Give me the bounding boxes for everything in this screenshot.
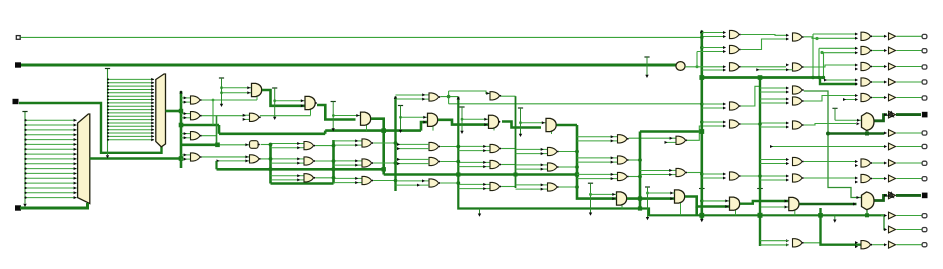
wire V395 to E2 b xyxy=(396,162,430,165)
OR gate M3 xyxy=(861,62,872,70)
input pin P1 xyxy=(16,36,20,40)
output pin y50.7 xyxy=(922,49,927,53)
XOR gate A1 xyxy=(184,96,202,104)
wire splitter S1 leg 7 xyxy=(24,153,76,156)
wire buffer out y97.5 xyxy=(897,97,922,99)
wire M4 input stub a xyxy=(824,79,857,82)
wire bus out y195 xyxy=(896,194,921,197)
wire T5 to F0 input a xyxy=(462,118,489,121)
input pin P2 (bus) xyxy=(15,62,21,67)
wire splitter S2 leg 4 xyxy=(107,91,154,94)
wire M out y163 xyxy=(872,162,886,164)
wire bus segment y125 xyxy=(181,124,219,127)
tap/wire MUX1 input a xyxy=(832,108,861,122)
XOR gate H2 xyxy=(611,156,629,164)
wire V577 to H1 b xyxy=(577,140,611,142)
wire I0 bottom pin xyxy=(680,202,682,216)
wire to J2 input xyxy=(697,51,723,53)
junction E4 branch xyxy=(447,95,451,99)
gate M6 arrows xyxy=(855,160,858,163)
wire splitter S1 leg 8 xyxy=(24,157,76,160)
wire F2 out xyxy=(501,164,515,166)
wire H0 out to I0 xyxy=(627,197,675,200)
junction V333/y169 xyxy=(331,167,335,171)
node S2 feed top cap xyxy=(105,68,110,70)
junction A1out xyxy=(212,99,215,102)
wire MUX1 out xyxy=(875,115,888,121)
wire vertical V820 to M8 xyxy=(821,208,862,245)
wire C1 out xyxy=(315,145,333,147)
arrow into B2 xyxy=(245,143,248,146)
wire V459 to F1 b xyxy=(458,150,483,152)
arrow E0out into F0 xyxy=(484,123,487,126)
output pin y36.5 xyxy=(922,34,927,38)
wire K0 out to MUX2 xyxy=(799,203,856,206)
wire bus y77 down to M4 xyxy=(820,78,857,85)
input pin P3 (bus) xyxy=(13,99,19,104)
wire D3 out xyxy=(373,180,395,182)
wire main vertical V3 xyxy=(700,31,703,220)
XOR gate B3 xyxy=(250,155,261,163)
XOR gate G3 xyxy=(541,183,559,191)
wire M5 input b stub xyxy=(843,98,857,101)
wire K3 out via V828 to MUX2 xyxy=(804,91,861,198)
junction x823/bus77 xyxy=(822,76,825,79)
wire V3 to J5 a xyxy=(702,121,723,123)
wire E3 out xyxy=(440,182,458,184)
wire vertical V333 xyxy=(332,140,335,184)
wire K0 bottom pin xyxy=(794,209,796,215)
XOR gate E4 xyxy=(422,93,440,101)
junction V383/y169 xyxy=(382,167,386,171)
junction V577/G3 xyxy=(575,185,579,189)
wire C0 out to D0 xyxy=(317,105,356,120)
wire J1 out to K1 xyxy=(741,34,786,37)
XOR gate J5 xyxy=(730,120,741,128)
AND gate J2 xyxy=(730,45,741,53)
wire V577 to H2 a xyxy=(577,157,611,159)
wire V270 to C3 a xyxy=(271,175,298,177)
wire V4 to K7 a xyxy=(760,175,786,177)
wire V514 to G3 a xyxy=(516,184,542,186)
junction V395/D2 xyxy=(394,161,398,165)
tick on V3 xyxy=(699,188,705,190)
buffer y66.5 xyxy=(884,63,896,70)
wire A3 out xyxy=(202,136,217,145)
tap T5 xyxy=(459,107,464,134)
wire V459 to F3 a xyxy=(458,183,483,185)
wire J3 out to K2 xyxy=(741,66,786,68)
wire B2 out xyxy=(261,144,271,146)
arrow V3 into J0 xyxy=(725,199,728,202)
gate J1 arrows xyxy=(723,31,726,34)
wire V1 to A1 input b xyxy=(181,101,184,103)
wire F0 bottom pin xyxy=(493,127,495,131)
wire V3 to J4 a xyxy=(702,103,723,105)
wire I1 out to J5 xyxy=(687,126,723,140)
wire K7 out to M7 xyxy=(804,177,857,179)
gate K2 arrows xyxy=(786,63,789,66)
wire A2 out to B1 xyxy=(202,115,246,117)
wire V640 to I2 a xyxy=(640,170,670,172)
wire splitter S1 leg 12 xyxy=(24,177,76,180)
node S1 feed bottom arrow xyxy=(23,204,26,207)
AND gate I0 xyxy=(675,190,687,203)
wire buffer out y178.5 xyxy=(897,178,922,180)
junction V270/B2 xyxy=(269,143,273,147)
XOR gate F1 xyxy=(483,144,501,152)
wire J6 out xyxy=(741,175,760,177)
wire V514 to G3 b xyxy=(516,188,542,190)
wire I0 input a xyxy=(648,192,675,195)
junction V2/y144 xyxy=(215,143,220,148)
junction V3/netA xyxy=(700,36,704,40)
gate M7 arrows xyxy=(855,177,858,180)
XOR gate E3 xyxy=(429,179,440,187)
tap T3 xyxy=(331,102,336,132)
wire D2 out xyxy=(373,162,395,164)
wire V4 to K4 b xyxy=(760,102,786,104)
wire M out y82 xyxy=(872,81,886,83)
AND gate B0 xyxy=(252,83,264,96)
junction V3/y131 xyxy=(699,129,704,134)
wire V577 to H1 a xyxy=(577,136,611,138)
junction V3/J6a xyxy=(700,172,704,176)
junction V3/J4a xyxy=(700,102,704,106)
junction y133/select xyxy=(865,132,869,136)
junction V333/C1 xyxy=(332,144,336,148)
wire H3 out xyxy=(629,176,640,178)
buffer (bus) y114 xyxy=(884,111,896,118)
buffer gate F4 xyxy=(490,92,501,100)
wire G2 out xyxy=(559,166,577,168)
XOR gate G1 xyxy=(541,147,559,155)
wire splitter S1 leg 11 xyxy=(24,172,76,175)
buffer y146.5 xyxy=(884,143,896,150)
junction V395/D1 xyxy=(394,141,398,145)
junction V333/C3 xyxy=(332,176,336,180)
wire buffer out y146.5 xyxy=(897,146,922,148)
wire vertical x813 xyxy=(812,34,814,78)
XOR gate I1 xyxy=(676,136,687,144)
wire bus from P3 to S2 xyxy=(19,103,162,153)
junction V3/y77 xyxy=(699,75,704,80)
buffer y229.5 xyxy=(884,226,896,233)
junction V4/J6 xyxy=(758,174,762,178)
wire K2 input b xyxy=(756,68,792,71)
wire bus segment y183 xyxy=(271,182,334,185)
wire bus to N13 xyxy=(884,215,886,229)
gate K1 arrows xyxy=(786,34,789,37)
output pin y229.6 xyxy=(922,228,927,232)
gate M4 arrows xyxy=(855,79,858,82)
output pin y146.5 xyxy=(922,144,927,148)
wire V4 to K0 input b xyxy=(760,206,789,208)
wire branch to J2 xyxy=(696,52,698,67)
junction V577/G2 xyxy=(575,165,579,169)
XOR gate D1 xyxy=(355,139,373,147)
wire H1 out to I1 xyxy=(629,137,676,139)
gate J6 arrows xyxy=(723,173,726,176)
wire splitter S2 leg 8 xyxy=(107,105,154,108)
buffer y97.5 xyxy=(884,94,896,101)
wire M out y36.3 xyxy=(872,35,886,37)
wire bus segment y133 xyxy=(219,133,325,136)
wire splitter S2 leg 9 xyxy=(107,108,154,111)
junction V459/E1 xyxy=(456,145,460,149)
wire V333 to D1 b xyxy=(334,144,356,146)
wire splitter S1 output bus xyxy=(90,157,181,160)
wire E0 out to F0 xyxy=(438,120,489,125)
wire V3 to J6 b xyxy=(702,177,723,179)
wire bus out y114 xyxy=(896,113,921,116)
wire vertical bus V1 xyxy=(180,91,183,168)
wire V3 to J1 b xyxy=(702,36,723,38)
wire K5 out to MUX1 xyxy=(804,124,856,126)
junction V1/y158 xyxy=(179,156,184,161)
junction T5/F0a xyxy=(461,118,464,121)
wire M out y244.7 xyxy=(872,244,886,246)
wire vertical V395 xyxy=(394,97,396,192)
XOR gate K3 xyxy=(793,86,804,94)
junction T4/E0a xyxy=(399,116,402,119)
tap T9 xyxy=(478,209,481,217)
arrow J0out into K0 xyxy=(785,200,788,203)
wire bus segment y130 xyxy=(325,129,421,132)
node V3 bottom arrow xyxy=(700,219,703,222)
wire x819 to M2 a xyxy=(819,47,857,49)
wire B0 out to C0 xyxy=(262,90,305,106)
wire vertical V4 xyxy=(759,78,761,247)
wire V1 to A4 input a xyxy=(181,154,184,156)
node V459 top arrow xyxy=(457,96,460,99)
wire T1 to B0 input b xyxy=(222,91,252,94)
wire V395 to E1 b xyxy=(396,147,430,150)
wire V270 to C1 b xyxy=(271,147,298,149)
wire buffer out y36.3 xyxy=(897,35,922,37)
arrow D0out into E0 xyxy=(423,121,426,124)
junction V577/G1 xyxy=(575,150,579,154)
wire vertical V270 xyxy=(269,144,272,184)
junction V383/D0out xyxy=(381,128,386,133)
XOR gate K6 xyxy=(793,157,804,165)
junction V3/J2b xyxy=(700,46,704,50)
wire K8 out to V820 xyxy=(804,242,821,244)
gate M5 arrows xyxy=(855,94,858,97)
arrow V577 into H0 xyxy=(612,197,615,200)
wire V4 to K3 b xyxy=(760,91,786,93)
gate I1 input arrow xyxy=(670,137,673,140)
junction V4/bus xyxy=(758,213,763,218)
XOR gate D2 xyxy=(355,159,373,167)
junction T6/G0a xyxy=(519,121,522,124)
AND gate G0 xyxy=(546,118,558,131)
arrow H0out into I0 xyxy=(670,197,673,200)
gate K6 arrows xyxy=(786,158,789,161)
buffer (bus) y195 xyxy=(884,191,896,198)
wire splitter S1 leg 16 xyxy=(24,196,76,199)
splitter S1 body xyxy=(78,114,90,204)
wire x823 to M2 b xyxy=(824,52,858,54)
wire vertical V219 xyxy=(218,125,221,134)
output pin y215.7 xyxy=(922,214,927,218)
wire vertical x823 xyxy=(823,53,825,78)
wire D0 out xyxy=(371,119,384,131)
XOR gate B1 xyxy=(243,113,261,121)
output pin y163.3 xyxy=(922,161,927,165)
AND gate F0 xyxy=(489,115,501,128)
wire H0 input b xyxy=(591,193,617,196)
wire splitter S2 leg 0 xyxy=(107,78,154,81)
junction x819/bus77 xyxy=(817,76,820,79)
gate K5 arrows xyxy=(786,122,789,125)
wire V3 to J2 b xyxy=(702,47,723,49)
wire V459 to F3 b xyxy=(458,188,483,190)
junction V4/J5 xyxy=(758,122,762,126)
box gate B2 xyxy=(250,141,260,149)
wire V4 to K8 b xyxy=(760,244,788,246)
wire to F4 input xyxy=(449,91,490,93)
wire V577 to H3 b xyxy=(577,178,611,180)
wire buffer out y163 xyxy=(897,162,922,164)
junction V820/bus xyxy=(818,213,823,218)
OR gate M5 xyxy=(861,93,872,101)
wire V3 to J6 a xyxy=(702,173,723,175)
gate M8 arrows xyxy=(855,241,858,244)
MUX1 input arrows xyxy=(857,122,860,125)
AND gate E0 xyxy=(428,113,440,126)
wire M out y66.5 xyxy=(872,66,886,68)
gate I1 input stub b xyxy=(665,141,677,144)
gate M3 arrows xyxy=(855,64,858,67)
wire V4 to K7 b xyxy=(760,179,786,181)
OR gate M8 xyxy=(861,241,872,249)
XOR gate K5 xyxy=(793,121,804,129)
wire splitter S2 leg 5 xyxy=(107,95,154,98)
wire V459 to F2 b xyxy=(458,166,483,168)
wire E0 bottom pin xyxy=(432,125,434,131)
output pin y98 xyxy=(922,96,927,100)
gate F4 input arrow xyxy=(486,92,489,95)
wire V4 to K5 b xyxy=(760,126,786,128)
output pin (bus) y195 xyxy=(922,193,928,199)
wire bus segment y131 xyxy=(640,130,702,133)
wire splitter S1 leg 2 xyxy=(24,128,76,131)
junction V459/E3 xyxy=(456,181,460,185)
junction V459/E2 xyxy=(456,160,460,164)
wire V514 to G1 b xyxy=(516,153,542,155)
arrow V4 into K0 xyxy=(785,206,788,209)
junction V270/B3 xyxy=(269,157,273,161)
wire C2 out xyxy=(315,160,333,162)
XOR gate F3 xyxy=(483,182,501,190)
wire B1 out to C0 bottom xyxy=(260,115,311,117)
arrow B0out into C0 xyxy=(301,104,304,107)
tap T-I0 at x647 xyxy=(645,187,650,220)
wire T6 to G0 input a xyxy=(521,121,547,124)
wire T2 to C0 input a xyxy=(275,99,305,102)
junction T3/D0a xyxy=(332,114,335,117)
wire A1 out to B0 bottom xyxy=(202,99,257,101)
wire V4 to K4 a xyxy=(760,98,786,100)
wire splitter S2 leg 17 xyxy=(107,135,154,138)
wire K4 out to M5 xyxy=(804,96,857,102)
wire V3 to J0 input a xyxy=(702,200,730,202)
XOR gate D3 xyxy=(355,176,373,184)
wire splitter S2 feed vertical xyxy=(107,69,109,156)
wire D1 out xyxy=(373,142,395,144)
OR gate M4 xyxy=(861,78,872,86)
wire MUX2 out xyxy=(875,195,888,200)
wire bus y133 xyxy=(828,132,884,135)
wire vertical V514 xyxy=(515,96,517,188)
wire M out y178.5 xyxy=(872,178,886,180)
wire V514 to G2 a xyxy=(516,164,542,166)
node V1 top arrow xyxy=(179,90,182,93)
wire F3 out xyxy=(501,186,515,188)
wire V514 to G1 a xyxy=(516,148,542,150)
junction V640/bus208 xyxy=(638,206,642,210)
XOR gate F2 xyxy=(483,160,501,168)
buffer y133 xyxy=(884,130,896,137)
wire I0 out to J0 xyxy=(685,197,730,207)
wire F4 out xyxy=(501,95,516,97)
wire I2 out xyxy=(687,172,702,174)
XOR gate E2 xyxy=(429,157,440,165)
wire V270 to C2 b xyxy=(271,162,298,164)
gate M2 arrows xyxy=(855,47,858,50)
buffer y163 xyxy=(884,160,896,167)
XOR gate E1 xyxy=(429,142,440,150)
wire T4 to E0 input a xyxy=(401,116,428,119)
AND gate H0 xyxy=(617,192,629,205)
multiplexer MUX2 xyxy=(862,192,875,210)
wire V4 to K6 b xyxy=(760,163,786,165)
wire V333 to D3 b xyxy=(334,182,356,184)
junction V1/y125 xyxy=(179,123,184,128)
wire splitter S2 leg 14 xyxy=(107,125,154,128)
wire E3 input stub b xyxy=(396,184,430,187)
wire splitter S2 leg 18 xyxy=(107,138,154,141)
wire F0 out to G0 xyxy=(502,122,541,128)
buffer y178.5 xyxy=(884,175,896,182)
node V3 top arrow xyxy=(700,30,703,33)
wire splitter S1 leg 10 xyxy=(24,167,76,170)
wire V270 to C3 b xyxy=(271,179,298,181)
wire K2 out to M3 xyxy=(804,65,857,67)
tap T-H0 at x590 xyxy=(588,183,593,216)
wire B0 bottom pin xyxy=(256,96,258,101)
tick on V4 xyxy=(757,188,763,190)
junction tap/I0a xyxy=(646,192,649,195)
gate K7 arrows xyxy=(786,175,789,178)
wire buffer out y215.5 xyxy=(897,215,922,217)
tap T6 xyxy=(518,108,523,137)
wire K1 out to M1 xyxy=(804,37,857,39)
wire splitter S2 leg 16 xyxy=(107,132,154,135)
buffer y244.7 xyxy=(884,241,896,248)
MUX2 input arrows xyxy=(853,203,856,206)
wire buffer out y66.5 xyxy=(897,66,922,68)
wire splitter S2 leg 11 xyxy=(107,115,154,118)
wire N7 stub xyxy=(770,145,884,148)
wire MUX2 select xyxy=(866,209,868,216)
XOR gate C1 xyxy=(297,142,315,150)
wire J0 out to K0 xyxy=(740,201,789,204)
wire V1 to A3 input b xyxy=(181,137,184,139)
junction x817 xyxy=(815,37,818,40)
wire C3 out xyxy=(315,177,333,179)
